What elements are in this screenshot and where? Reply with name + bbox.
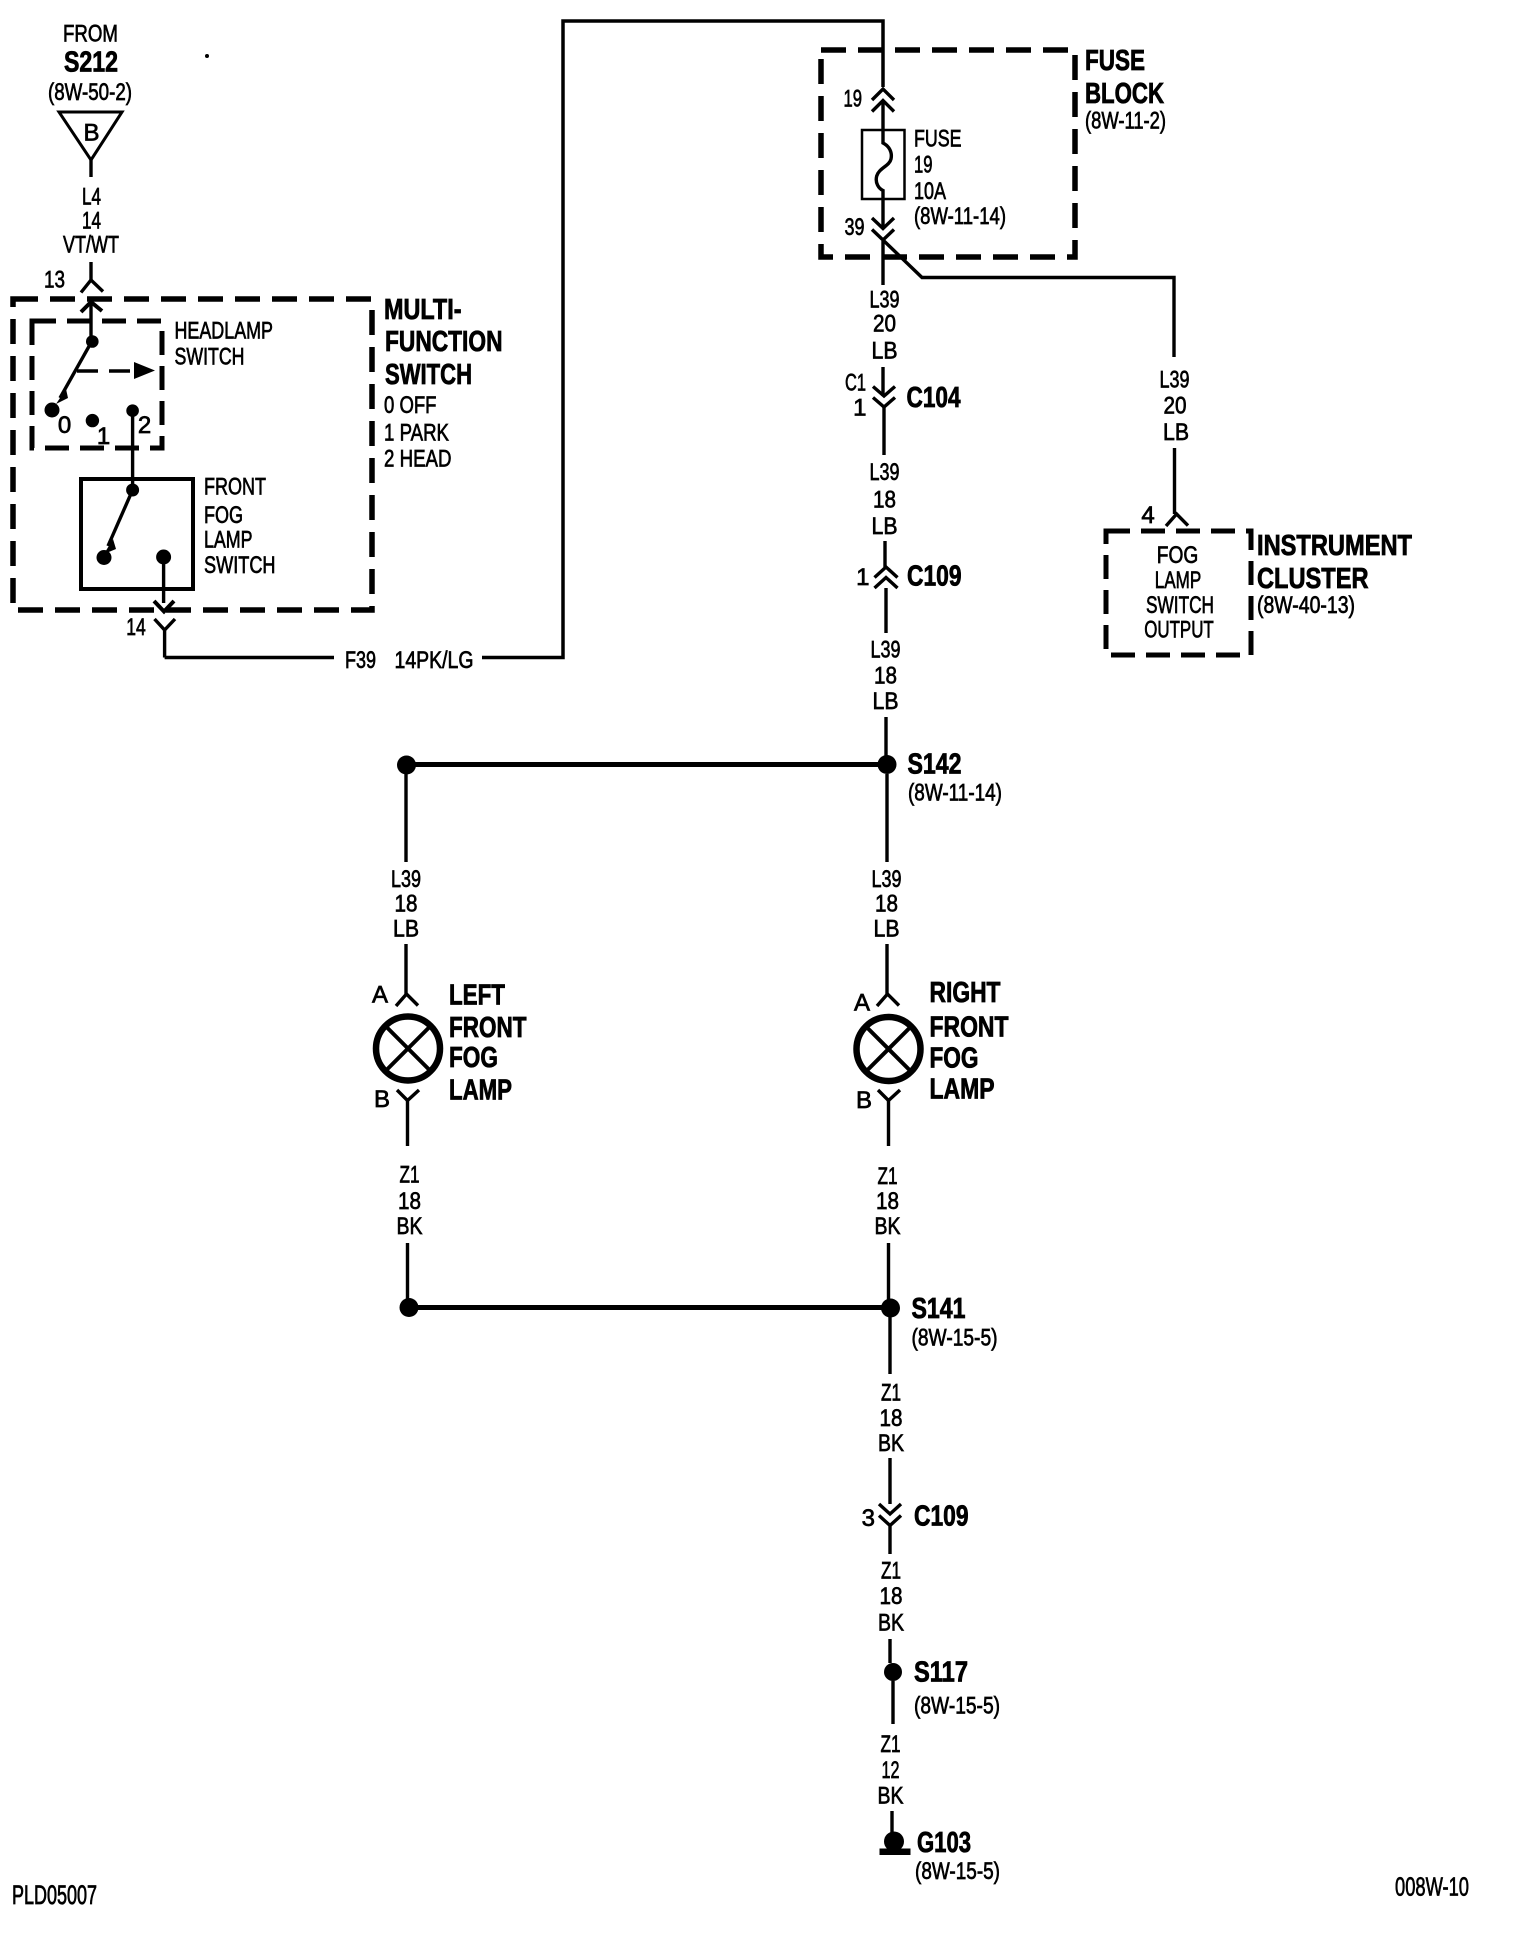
svg-text:18: 18 [874,663,897,690]
svg-text:1: 1 [853,395,866,422]
svg-text:F39: F39 [345,647,376,674]
svg-text:1 PARK: 1 PARK [384,420,449,447]
svg-text:L39: L39 [870,287,900,314]
svg-text:LB: LB [874,916,900,943]
svg-text:Z1: Z1 [878,1163,898,1190]
svg-text:20: 20 [873,311,896,338]
svg-text:18: 18 [880,1583,903,1610]
svg-text:18: 18 [875,891,898,918]
svg-text:2: 2 [138,412,151,439]
svg-text:L4: L4 [82,184,101,211]
svg-text:LB: LB [872,338,898,365]
svg-text:VT/WT: VT/WT [63,232,119,259]
svg-text:BLOCK: BLOCK [1085,78,1164,110]
svg-text:LAMP: LAMP [930,1074,995,1106]
svg-text:Z1: Z1 [400,1162,420,1189]
svg-text:S142: S142 [908,749,962,781]
svg-text:14: 14 [82,208,101,235]
svg-text:C1: C1 [845,370,866,397]
svg-text:G103: G103 [917,1827,971,1859]
svg-text:BK: BK [397,1213,423,1240]
svg-text:B: B [83,120,99,147]
svg-text:B: B [856,1087,872,1114]
svg-text:LAMP: LAMP [449,1075,512,1107]
svg-text:18: 18 [880,1405,903,1432]
svg-text:SWITCH: SWITCH [175,344,245,371]
svg-text:INSTRUMENT: INSTRUMENT [1257,530,1412,562]
svg-text:OUTPUT: OUTPUT [1144,617,1214,644]
svg-text:(8W-15-5): (8W-15-5) [914,1693,1000,1720]
svg-text:20: 20 [1164,393,1187,420]
svg-text:Z1: Z1 [881,1558,901,1585]
svg-text:C109: C109 [914,1501,969,1533]
svg-text:FUSE: FUSE [914,126,962,153]
svg-text:18: 18 [876,1188,899,1215]
svg-text:18: 18 [398,1188,421,1215]
svg-text:FRONT: FRONT [449,1012,527,1044]
svg-text:S117: S117 [914,1657,968,1689]
svg-text:FOG: FOG [930,1043,979,1075]
svg-text:18: 18 [873,487,896,514]
svg-text:008W-10: 008W-10 [1395,1872,1469,1902]
svg-text:FROM: FROM [63,21,118,48]
svg-text:BK: BK [875,1213,901,1240]
svg-text:SWITCH: SWITCH [1146,592,1214,619]
svg-text:12: 12 [882,1757,900,1784]
svg-text:C104: C104 [907,382,961,414]
svg-text:18: 18 [395,891,418,918]
svg-text:(8W-40-13): (8W-40-13) [1257,592,1355,619]
svg-text:LB: LB [1163,419,1189,446]
svg-text:LAMP: LAMP [1155,567,1202,594]
svg-text:0 OFF: 0 OFF [384,392,437,419]
svg-text:L39: L39 [391,866,421,893]
svg-text:BK: BK [878,1430,904,1457]
svg-text:(8W-11-14): (8W-11-14) [908,780,1002,807]
svg-text:14: 14 [126,614,146,641]
svg-text:4: 4 [1141,502,1154,529]
svg-text:(8W-11-14): (8W-11-14) [914,203,1006,230]
svg-text:(8W-11-2): (8W-11-2) [1085,108,1166,135]
svg-text:RIGHT: RIGHT [930,977,1001,1009]
svg-text:FOG: FOG [449,1042,498,1074]
svg-text:S212: S212 [64,47,118,79]
svg-text:MULTI-: MULTI- [384,294,462,326]
svg-text:(8W-50-2): (8W-50-2) [48,79,132,106]
svg-text:B: B [374,1086,390,1113]
svg-text:(8W-15-5): (8W-15-5) [912,1325,998,1352]
svg-text:SWITCH: SWITCH [385,359,472,391]
svg-text:LB: LB [872,513,898,540]
svg-text:SWITCH: SWITCH [204,552,276,579]
svg-text:A: A [372,982,388,1009]
svg-text:39: 39 [845,214,865,241]
svg-text:L39: L39 [1160,367,1190,394]
svg-text:13: 13 [44,267,65,294]
svg-text:LB: LB [393,916,419,943]
svg-text:C109: C109 [907,561,962,593]
svg-text:BK: BK [878,1783,904,1810]
svg-text:L39: L39 [870,459,900,486]
svg-text:S141: S141 [912,1293,966,1325]
svg-text:Z1: Z1 [881,1731,901,1758]
svg-text:14PK/LG: 14PK/LG [395,647,474,674]
svg-text:PLD05007: PLD05007 [12,1880,97,1910]
svg-text:2 HEAD: 2 HEAD [384,446,452,473]
svg-text:10A: 10A [914,178,946,205]
svg-text:LAMP: LAMP [204,527,253,554]
svg-text:FRONT: FRONT [204,474,266,501]
svg-text:BK: BK [878,1610,904,1637]
svg-text:19: 19 [844,86,863,113]
svg-text:L39: L39 [871,637,901,664]
svg-text:FRONT: FRONT [930,1012,1009,1044]
svg-text:FOG: FOG [204,502,243,529]
svg-text:LB: LB [873,688,899,715]
svg-text:FUNCTION: FUNCTION [385,326,503,358]
svg-text:(8W-15-5): (8W-15-5) [915,1858,1000,1885]
svg-text:0: 0 [58,412,71,439]
svg-text:FUSE: FUSE [1085,45,1145,77]
svg-text:LEFT: LEFT [449,980,505,1012]
svg-text:L39: L39 [872,866,902,893]
svg-text:3: 3 [862,1505,875,1532]
svg-text:19: 19 [914,152,933,179]
svg-text:Z1: Z1 [881,1380,901,1407]
svg-text:CLUSTER: CLUSTER [1257,563,1369,595]
svg-text:1: 1 [97,423,110,450]
svg-text:A: A [854,990,870,1017]
svg-text:FOG: FOG [1157,542,1199,569]
svg-text:1: 1 [856,564,869,591]
svg-text:HEADLAMP: HEADLAMP [175,318,274,345]
